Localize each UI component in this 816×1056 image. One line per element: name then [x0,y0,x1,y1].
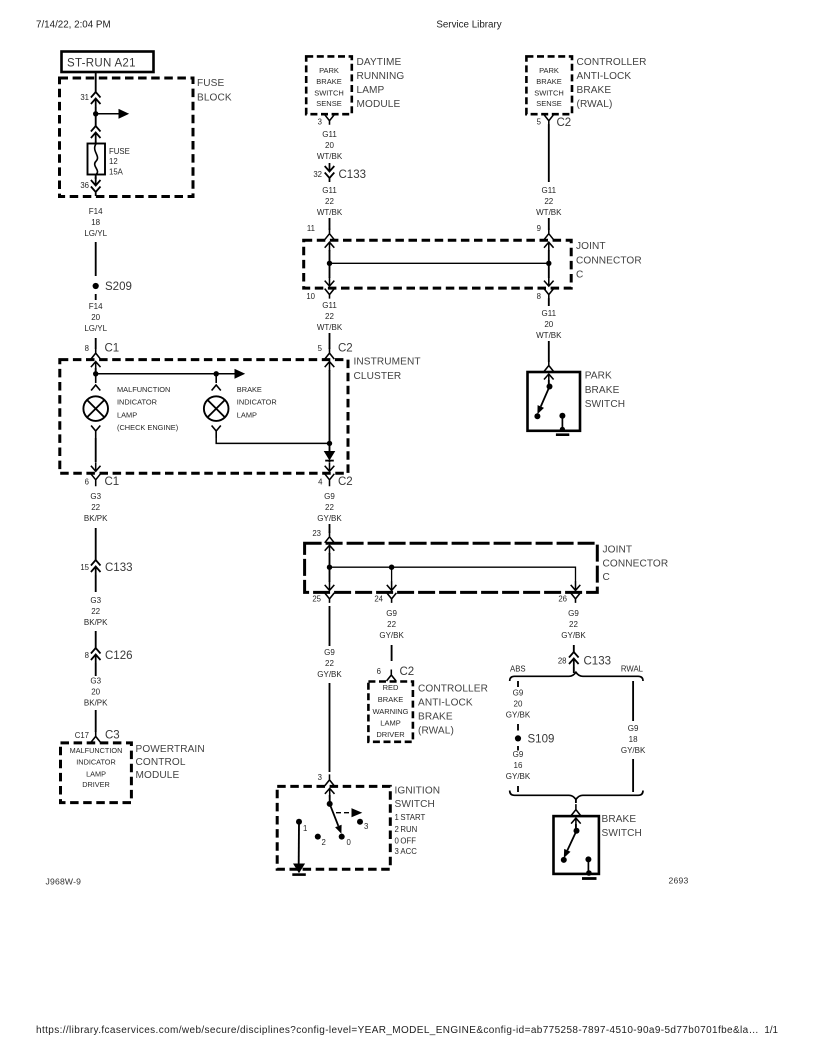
svg-text:20: 20 [544,320,553,329]
svg-text:Service Library: Service Library [436,20,501,31]
svg-text:BLOCK: BLOCK [197,93,232,104]
svg-text:20: 20 [91,313,100,322]
svg-text:JOINT: JOINT [576,241,606,252]
svg-text:22: 22 [91,607,100,616]
connector C1 pin 6 below cluster [91,474,101,487]
cluster pin 6 inner arrow [91,462,101,471]
svg-text:G3: G3 [90,492,101,501]
junction node above MIL lamp [93,371,98,376]
footer url [36,1025,759,1036]
brake switch pivot node [574,828,580,834]
svg-text:CONTROLLER: CONTROLLER [577,57,647,68]
svg-text:(RWAL): (RWAL) [418,726,454,737]
park brake switch inner chevron [544,374,554,383]
svg-text:ANTI-LOCK: ANTI-LOCK [418,698,473,709]
joint connector 1 left wire [329,250,331,278]
splice S109 [515,735,521,741]
joint connector pin 24 fork [387,593,397,603]
svg-text:CLUSTER: CLUSTER [354,371,402,382]
joint connector 1 left junction [327,261,332,266]
wire to park brake switch [548,298,550,306]
svg-text:24: 24 [374,595,383,604]
ignition switch contact 2 [315,834,321,840]
in-line connector C133 pin 32 [325,163,335,172]
wire junction to diode [329,443,331,451]
fuse F12 15A symbol [88,144,106,175]
svg-text:WT/BK: WT/BK [317,152,343,161]
joint connector 1 right junction [546,261,551,266]
RWAL pin 5 connector C2 fork [544,115,554,125]
park brake switch contact node [534,413,540,419]
svg-text:4: 4 [318,478,323,487]
park brake switch box [528,372,581,431]
svg-text:G9: G9 [324,492,335,501]
svg-text:IGNITION: IGNITION [395,785,441,796]
svg-text:FUSE: FUSE [197,78,224,89]
svg-text:C: C [603,572,610,583]
svg-text:WT/BK: WT/BK [317,208,343,217]
svg-text:3: 3 [318,118,322,127]
ignition switch pin 3 fork [325,774,335,786]
svg-text:G3: G3 [90,596,101,605]
svg-text:3: 3 [318,773,322,782]
svg-text:FUSE: FUSE [109,147,130,156]
svg-text:LAMP: LAMP [117,410,137,419]
svg-text:8: 8 [85,344,89,353]
junction node at diode [327,441,332,446]
wire RWAL C2 to joint connector [548,124,550,182]
wire C133 to option brace [573,667,575,673]
svg-text:GY/BK: GY/BK [317,670,342,679]
svg-text:BRAKE: BRAKE [378,695,403,704]
instrument cluster dashed box [60,360,348,474]
wire to C126 [95,631,97,648]
svg-text:22: 22 [91,503,100,512]
wire connector to fuse [95,141,97,144]
park brake switch ground bar [556,433,569,436]
ABS branch wire segment 1 [517,681,519,687]
DRL pin 3 connector fork [325,115,335,125]
pin 31 connector symbol [91,92,101,98]
svg-text:F14: F14 [89,207,103,216]
ignition switch ground wire [298,822,300,864]
joint connector 2 pin 23 inner chevron [325,545,335,554]
svg-text:5: 5 [318,344,323,353]
joint connector 2 pin 24 inner arrow [387,581,397,590]
svg-text:G11: G11 [542,309,557,318]
joint connector 2 pin 23 fork [325,531,335,543]
park brake switch ground wire [561,416,563,431]
pin 36 connector symbol [91,177,101,186]
svg-text:26: 26 [558,595,567,604]
svg-text:BRAKE: BRAKE [536,77,561,86]
wire to joint connector 2 pin 23 [329,524,331,533]
svg-text:LAMP: LAMP [86,770,106,779]
svg-text:BRAKE: BRAKE [602,814,637,825]
svg-text:GY/BK: GY/BK [621,746,646,755]
svg-text:SWITCH: SWITCH [585,399,625,410]
wire to lamp junction [95,368,97,374]
ignition switch pivot wire [329,795,331,804]
svg-text:MALFUNCTION: MALFUNCTION [117,385,170,394]
svg-text:22: 22 [325,659,334,668]
park brake switch ground contact node [559,413,565,419]
svg-text:S209: S209 [105,281,132,293]
junction node above brake lamp [214,371,219,376]
svg-text:6: 6 [377,667,381,676]
in-line connector C126 pin 8 [91,648,101,654]
svg-text:GY/BK: GY/BK [317,514,342,523]
connector C2 pin 4 below cluster [325,474,335,487]
ignition switch ground symbol [294,864,304,872]
svg-text:(RWAL): (RWAL) [577,99,613,110]
wire cluster to C133 [95,528,97,560]
svg-text:BK/PK: BK/PK [84,618,108,627]
power feed label ST-RUN A21 [62,52,154,73]
svg-text:PARK: PARK [585,371,612,382]
svg-text:BRAKE: BRAKE [237,385,262,394]
svg-text:DAYTIME: DAYTIME [357,57,402,68]
in-fuseblock connector symbol [91,126,101,132]
RWAL branch wire upper [632,681,634,721]
brake switch entry fork [571,804,581,816]
svg-text:GY/BK: GY/BK [506,711,531,720]
svg-text:WARNING: WARNING [373,707,409,716]
MIL lamp bottom fork [91,426,100,439]
brake lamp bottom fork [212,426,221,439]
joint connector pin 10 fork [325,289,335,299]
svg-text:G3: G3 [90,677,101,686]
diode in cluster [325,452,335,460]
connector C2 pin 5 into cluster [325,348,335,360]
svg-text:CONNECTOR: CONNECTOR [576,256,642,267]
joint connector pin 11 fork [325,228,335,240]
ignition switch rotate arrow [336,812,352,814]
wire brace to brake switch [575,799,577,803]
svg-text:C133: C133 [339,169,367,181]
svg-text:23: 23 [312,529,321,538]
junction node in fuse block [93,111,98,116]
wire fuse block to splice [95,242,97,276]
option split brace [510,672,643,681]
svg-text:ST-RUN A21: ST-RUN A21 [67,58,136,70]
svg-text:LG/YL: LG/YL [84,229,107,238]
brake switch inner chevron [571,818,581,827]
svg-text:BRAKE: BRAKE [577,85,612,96]
svg-text:PARK: PARK [539,66,559,75]
svg-text:G11: G11 [322,186,337,195]
svg-text:SENSE: SENSE [316,99,341,108]
svg-text:C126: C126 [105,650,133,662]
svg-text:ANTI-LOCK: ANTI-LOCK [577,71,632,82]
svg-text:BRAKE: BRAKE [585,385,620,396]
svg-text:2 RUN: 2 RUN [395,825,418,834]
svg-text:16: 16 [514,761,523,770]
svg-text:C1: C1 [105,476,120,488]
joint connector C upper dashed box [304,240,572,288]
brake lamp top connector chevron [212,374,221,391]
svg-text:22: 22 [569,620,578,629]
svg-text:SWITCH: SWITCH [395,799,435,810]
ignition switch contact 1 [296,819,302,825]
svg-text:LAMP: LAMP [380,718,400,727]
wire pin 26 to C133 [573,645,575,652]
connector C1 pin 8 into cluster [91,348,101,360]
svg-text:POWERTRAIN: POWERTRAIN [136,744,205,755]
svg-text:22: 22 [544,197,553,206]
svg-text:8: 8 [537,292,541,301]
wire MIL lamp to pin 6 [95,438,97,462]
ABS branch wire segment 3 [517,746,519,751]
svg-text:CONTROLLER: CONTROLLER [418,684,488,695]
joint connector 1 pin 8 inner arrow [544,277,554,286]
svg-text:ABS: ABS [510,665,526,674]
ignition switch inner chevron [325,788,335,797]
splice S209 [93,283,99,289]
fuse block dashed box [60,78,194,197]
svg-text:J968W-9: J968W-9 [46,877,82,887]
cluster pin 5 inner chevron [325,362,335,371]
svg-text:C3: C3 [105,730,120,742]
daytime running lamp module dashed box [306,56,352,114]
wire diode to pin 4 [329,461,331,462]
joint connector 2 mid wire down [391,567,393,582]
RWAL branch wire lower [632,759,634,792]
svg-text:36: 36 [80,181,89,190]
in-line connector C133 pin 28 [569,652,579,658]
svg-text:SWITCH: SWITCH [534,88,564,97]
ABS branch wire segment 4 [517,786,519,792]
svg-text:SWITCH: SWITCH [314,88,344,97]
svg-text:JOINT: JOINT [603,545,633,556]
svg-text:C2: C2 [338,476,353,488]
joint connector 2 pin 26 inner arrow [571,581,581,590]
joint connector 2 bus bar [330,567,576,582]
arrow tap to other circuits [96,113,119,115]
svg-text:31: 31 [80,93,89,102]
malfunction indicator lamp (check engine) [83,396,108,421]
svg-text:12: 12 [109,157,118,166]
svg-text:22: 22 [325,197,334,206]
svg-text:GY/BK: GY/BK [506,772,531,781]
svg-text:C133: C133 [584,656,612,668]
ignition switch pivot node [327,801,333,807]
svg-text:C2: C2 [338,343,353,355]
svg-text:6: 6 [85,478,89,487]
park brake switch entry fork [544,360,554,372]
joint connector 1 right pin 9 inner chevron [544,242,554,251]
svg-text:1 START: 1 START [395,813,426,822]
svg-text:SWITCH: SWITCH [602,828,642,839]
svg-text:DRIVER: DRIVER [376,730,405,739]
wire to cluster pin 8 [95,338,97,349]
svg-text:C2: C2 [557,117,572,129]
svg-text:WT/BK: WT/BK [536,208,562,217]
joint connector 2 pin 25 inner arrow [325,581,335,590]
svg-text:INDICATOR: INDICATOR [117,398,157,407]
wire brake lamp to right branch [216,438,329,443]
svg-text:18: 18 [629,735,638,744]
svg-text:G9: G9 [386,609,397,618]
svg-text:0: 0 [347,838,352,847]
svg-text:MODULE: MODULE [357,99,401,110]
svg-text:0 OFF: 0 OFF [395,836,417,845]
svg-text:CONTROL: CONTROL [136,757,186,768]
wire below splice [95,294,97,300]
svg-text:RED: RED [383,683,399,692]
brake switch ground contact node [585,856,591,862]
svg-text:BK/PK: BK/PK [84,699,108,708]
wire fuse to pin 36 [95,175,97,180]
MIL lamp top connector chevron [91,374,100,391]
svg-text:GY/BK: GY/BK [379,631,404,640]
svg-text:22: 22 [325,503,334,512]
ignition switch lever with arrow [330,804,339,826]
svg-text:LAMP: LAMP [357,85,385,96]
svg-text:MODULE: MODULE [136,770,180,781]
wire pin31 to junction [95,107,97,114]
joint connector 1 pin 10 inner arrow [325,277,335,286]
svg-text:3: 3 [364,822,368,831]
svg-text:MALFUNCTION: MALFUNCTION [70,746,123,755]
svg-text:7/14/22, 2:04 PM: 7/14/22, 2:04 PM [36,20,111,31]
svg-text:11: 11 [307,224,315,233]
svg-text:15A: 15A [109,168,124,177]
brake switch contact node [561,857,567,863]
joint connector 1 right wire [548,250,550,278]
joint connector C lower dashed box [305,543,598,592]
footer page number [764,1025,778,1036]
wire pin 24 to RWAL pin 6 [391,645,393,661]
svg-text:10: 10 [306,292,315,301]
svg-text:LAMP: LAMP [237,410,257,419]
joint connector 2 left junction [327,565,332,570]
svg-text:G11: G11 [322,301,337,310]
svg-text:DRIVER: DRIVER [82,780,110,789]
svg-text:3 ACC: 3 ACC [395,847,418,856]
svg-text:SENSE: SENSE [536,99,561,108]
wire C126 to label [95,663,97,676]
svg-text:C17: C17 [75,731,89,740]
controller anti-lock brake dashed box (park brake switch sense) [526,56,572,114]
svg-text:INDICATOR: INDICATOR [237,398,277,407]
joint connector 1 left pin 11 inner chevron [325,242,335,251]
svg-text:G11: G11 [542,186,557,195]
svg-text:C: C [576,270,583,281]
svg-text:8: 8 [85,651,89,660]
svg-text:F14: F14 [89,302,103,311]
svg-text:WT/BK: WT/BK [317,323,343,332]
svg-text:RUNNING: RUNNING [357,71,405,82]
svg-text:18: 18 [91,218,100,227]
joint connector pin 25 fork [325,593,335,603]
red brake warning lamp driver dashed box [368,682,413,742]
svg-text:9: 9 [537,224,541,233]
svg-text:BRAKE: BRAKE [418,712,453,723]
joint connector 2 left wire [329,553,331,582]
connector C2 pin 6 into RWAL [387,670,397,682]
wire pin 25 down [329,606,331,646]
svg-text:CONNECTOR: CONNECTOR [603,559,669,570]
brake switch ground bar [582,877,597,880]
joint connector pin 9 fork [544,228,554,240]
wire pin 10 to cluster pin 5 [329,333,331,349]
svg-text:G9: G9 [513,689,524,698]
svg-text:RWAL: RWAL [621,665,644,674]
svg-text:25: 25 [312,595,321,604]
svg-text:2: 2 [322,838,326,847]
svg-text:C133: C133 [105,562,133,574]
cluster pin 8 inner chevron [91,362,101,371]
wire pin 5 down to junction [329,370,331,443]
svg-text:15: 15 [80,563,89,572]
svg-text:22: 22 [387,620,396,629]
svg-text:C1: C1 [105,343,120,355]
joint connector 1 bus bar [330,262,549,264]
svg-text:S109: S109 [528,734,555,746]
park brake switch lever with arrow [541,387,550,407]
powertrain control module dashed box [61,743,132,803]
wire to PCM pin C17 [95,710,97,732]
svg-text:G9: G9 [324,648,335,657]
svg-text:20: 20 [325,141,334,150]
svg-text:5: 5 [537,118,542,127]
svg-text:INDICATOR: INDICATOR [76,758,115,767]
svg-text:G9: G9 [628,724,639,733]
wire C133 to label [95,575,97,592]
svg-text:20: 20 [514,700,523,709]
svg-text:32: 32 [313,170,322,179]
wire to joint connector pin 9 [548,218,550,230]
brake switch box [554,816,599,874]
svg-text:BRAKE: BRAKE [316,77,341,86]
brake switch lever with arrow [567,831,576,851]
wire to joint connector pin 11 [329,218,331,230]
park brake switch pivot node [547,384,553,390]
option merge brace [510,791,643,800]
svg-text:22: 22 [325,312,334,321]
svg-text:PARK: PARK [319,66,339,75]
svg-text:G9: G9 [568,609,579,618]
ignition switch contact 0 [339,834,345,840]
svg-text:INSTRUMENT: INSTRUMENT [354,357,421,368]
internal feed wire with arrow [96,373,235,375]
svg-text:1: 1 [303,824,307,833]
cluster pin 4 inner arrow [325,462,335,471]
ignition switch contact 3 [357,819,363,825]
brake switch ground wire [587,859,589,874]
svg-text:2693: 2693 [669,876,689,886]
svg-text:(CHECK ENGINE): (CHECK ENGINE) [117,423,178,432]
wire from ST-RUN A21 into fuse block [95,72,97,92]
joint connector pin 8 fork [544,289,554,299]
joint connector pin 26 fork [571,593,581,603]
brake indicator lamp [204,396,229,421]
svg-text:28: 28 [558,657,567,666]
joint connector 2 mid junction [389,565,394,570]
park brake switch pivot wire [548,380,550,386]
svg-text:WT/BK: WT/BK [536,331,562,340]
connector C3 pin C17 into PCM [91,731,101,743]
svg-text:LG/YL: LG/YL [84,324,107,333]
svg-text:GY/BK: GY/BK [561,631,586,640]
svg-text:20: 20 [91,688,100,697]
wire junction to connector [95,114,97,126]
in-line connector C133 pin 15 [91,560,101,566]
brake switch pivot wire [575,824,577,831]
svg-text:G9: G9 [513,750,524,759]
svg-text:BK/PK: BK/PK [84,514,108,523]
